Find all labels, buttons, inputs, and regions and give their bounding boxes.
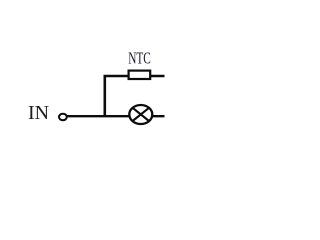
lamp EL (circle with X) [129, 105, 152, 124]
resistor NTC (thermistor body) [129, 71, 151, 79]
wire: main horizontal from terminal to right edge [67, 115, 165, 117]
label NTC [128, 49, 151, 68]
svg-text:NTC: NTC [128, 49, 151, 68]
wire: branch vertical riser [104, 76, 107, 116]
svg-text:IN: IN [28, 102, 50, 124]
label IN [28, 102, 50, 124]
input terminal (open circle) [59, 114, 67, 121]
wire: NTC branch horizontal [104, 75, 165, 77]
